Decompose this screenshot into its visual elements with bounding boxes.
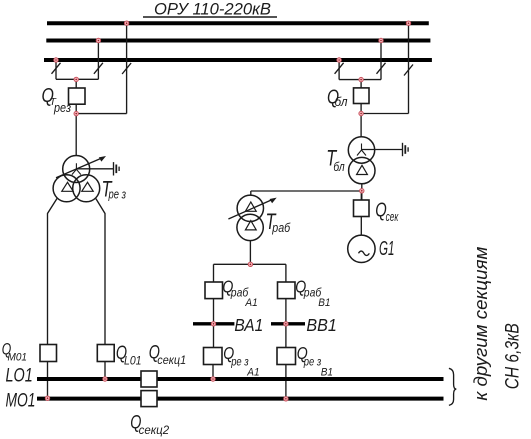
wire: into QTrez box top: [75, 79, 77, 88]
transformer Trab HV winding (top circle): [237, 195, 263, 221]
label Qbl: [327, 87, 348, 109]
wire: QrezB1 to bus M01: [285, 365, 287, 400]
breaker Qbl box: [354, 88, 370, 104]
svg-text:ре з: ре з: [108, 187, 126, 202]
label Trez: [102, 177, 127, 202]
section breaker Qsekc2 box: [141, 391, 157, 407]
junction nodes (red markers): [45, 21, 410, 401]
transformer Trab LV winding (bottom circle): [237, 214, 263, 240]
tilde inside G1: [359, 251, 370, 255]
bus BB1: [271, 322, 305, 325]
node on W2 right: [379, 38, 383, 42]
delta symbol in Tbl LV winding: [357, 165, 368, 174]
svg-text:LO1: LO1: [6, 366, 33, 387]
wire: W3 drop to Qbl branch: [338, 60, 340, 80]
breaker Qsek box: [354, 200, 370, 217]
wire: Tbl down to section node: [361, 184, 363, 200]
bus L01 left segment: [37, 377, 141, 381]
wire: QrezA1 to bus L01: [212, 365, 214, 380]
delta symbol in Trab HV winding: [245, 202, 256, 211]
node on BB1: [284, 322, 288, 326]
wire: below QM01 to M01 bus: [47, 362, 49, 399]
svg-text:В1: В1: [318, 297, 330, 309]
wire: below QTrez box: [75, 104, 77, 156]
wire: below Qbl box: [360, 104, 362, 138]
svg-text:ре з: ре з: [230, 355, 249, 369]
label Qsekc1: [149, 343, 186, 367]
node QrezB1-M01: [284, 397, 288, 401]
section breaker Qsekc1 box: [141, 371, 157, 387]
svg-text:ВВ1: ВВ1: [306, 315, 336, 335]
node on W3 left: [54, 58, 58, 62]
wire: W2 drop to Qbl branch: [380, 41, 382, 80]
svg-text:к другим секциям: к другим секциям: [470, 246, 491, 400]
busbar W3 (bottom 110-220kV bus): [44, 58, 432, 62]
bus M01 right segment: [157, 397, 444, 401]
wire: W3 drop to QTrez branch: [55, 60, 57, 79]
node on W1 right bypass: [406, 21, 410, 25]
label Qsek: [375, 199, 399, 224]
node QL01-L01: [103, 377, 107, 381]
node QrezA1-L01: [211, 377, 215, 381]
breaker QM01 box: [40, 345, 57, 362]
transformer Tbl LV winding (bottom circle): [349, 157, 375, 183]
label QM01: [2, 341, 27, 364]
wire: Trab riser: [250, 191, 252, 196]
star point in Trez HV winding: [72, 163, 81, 174]
svg-text:В1: В1: [321, 367, 333, 379]
wire: bypass riser to W1 (right): [408, 23, 410, 113]
disconnector slash on W3 drop (right): [335, 63, 344, 74]
label QrabB1: [295, 276, 330, 309]
underline of title: [143, 16, 277, 18]
svg-text:раб: раб: [271, 221, 291, 235]
wire: QrabA1 to BA1: [213, 299, 215, 348]
busbar W1 (top 110-220kV bus): [47, 21, 429, 25]
disconnector slash on W2 drop: [94, 63, 103, 74]
svg-text:М01: М01: [8, 351, 28, 363]
wire: Trab down to split node: [249, 240, 251, 264]
wire: into Qbl box top: [360, 80, 362, 88]
star symbol in Tbl HV winding: [357, 144, 366, 156]
svg-text:секц1: секц1: [157, 355, 186, 367]
svg-text:сек: сек: [386, 210, 399, 224]
wire: Trez LV leg down-right: [96, 199, 105, 345]
label QTrez: [42, 85, 72, 115]
node below Trab: [248, 262, 252, 266]
node on W1 left bypass: [124, 21, 128, 25]
svg-text:ре з: ре з: [303, 355, 322, 369]
bus M01 left segment: [37, 397, 141, 401]
node above QTrez: [74, 77, 78, 81]
wire: bypass riser to W1: [126, 23, 128, 113]
label Tbl: [326, 146, 344, 174]
label QrabA1: [222, 276, 257, 309]
label QrezB1: [297, 343, 333, 378]
label QL01: [116, 343, 142, 367]
wire: bypass horizontal below QTrez: [76, 113, 126, 115]
neutral wire to ground from Tbl: [362, 149, 403, 151]
ground symbol at Trez neutral: [113, 162, 115, 175]
wire: horizontal joining branch above QTrez: [56, 78, 98, 80]
transformer Tbl HV winding (top circle): [348, 137, 374, 163]
generator G1 circle: [348, 235, 375, 262]
svg-text:бл: бл: [335, 95, 348, 109]
bus BA1: [193, 322, 234, 325]
disconnector slash on bypass riser: [122, 63, 131, 74]
wire: QrabB1 to BB1: [285, 299, 287, 348]
curly brace for other sections: [449, 368, 456, 405]
svg-text:ОРУ 110-220кВ: ОРУ 110-220кВ: [154, 1, 271, 19]
label Qsekc2: [130, 413, 170, 437]
ground symbol at Tbl neutral: [402, 143, 404, 156]
breaker QTrez box: [69, 88, 86, 104]
svg-text:ВА1: ВА1: [234, 315, 263, 335]
delta symbol in Trab LV winding: [245, 221, 256, 230]
delta symbol in MV winding: [62, 182, 73, 191]
node on BA1: [211, 322, 215, 326]
label QrezA1: [223, 343, 259, 378]
wire: right drop to QrabB1: [285, 264, 287, 282]
svg-text:А1: А1: [244, 297, 257, 309]
wire: tie line from Trab to Tbl node: [251, 190, 362, 192]
delta symbol in LV winding: [82, 182, 93, 191]
wire: below QL01 to L01 bus: [104, 362, 106, 380]
transformer Trez MV winding (bottom-left circle): [53, 175, 80, 202]
node QM01-M01: [45, 396, 49, 400]
disconnector slash on W3 drop: [52, 63, 61, 74]
tap-changer arrow through Trez: [56, 158, 103, 178]
svg-text:А1: А1: [246, 367, 259, 379]
tap-changer arrow through Trab: [228, 199, 273, 219]
node below QTrez: [74, 111, 78, 115]
busbar W2 (middle 110-220kV bus): [46, 39, 430, 43]
wire: Tbl node to Qsek: [360, 191, 362, 200]
neutral wire to ground from Trez: [76, 168, 113, 170]
node on W2 left: [96, 38, 100, 42]
svg-text:СН 6,3кВ: СН 6,3кВ: [502, 323, 523, 389]
wire: W2 drop to QTrez branch: [97, 41, 99, 80]
breaker QL01 box: [97, 345, 114, 362]
breaker QrezB1 box: [277, 348, 296, 365]
svg-text:рез: рез: [53, 100, 71, 115]
breaker QrabA1 box: [205, 282, 223, 299]
node below Qbl: [359, 111, 363, 115]
breaker QrezA1 box: [204, 348, 223, 365]
node at Tbl / tie line: [360, 189, 364, 193]
wire: Trez MV leg down-left: [48, 199, 58, 345]
label Trab: [266, 209, 292, 235]
bus L01 right segment: [157, 377, 444, 381]
breaker QrabB1 box: [278, 282, 296, 299]
disconnector slash on W2 drop (right): [377, 63, 386, 74]
disconnector slash on bypass riser (right): [404, 65, 413, 76]
wire: horizontal joining branch above Qbl: [339, 79, 381, 81]
wire: split horizontal: [214, 263, 286, 265]
transformer Trez HV winding (top circle): [63, 156, 90, 183]
svg-text:секц2: секц2: [139, 425, 170, 437]
svg-text:бл: бл: [333, 160, 344, 174]
transformer Trez LV winding (bottom-right circle): [73, 175, 100, 202]
wire: left drop to QrabA1: [213, 264, 215, 282]
wire: Qsek to G1: [360, 217, 362, 236]
svg-text:MO1: MO1: [6, 390, 36, 411]
node on W3 right: [337, 58, 341, 62]
svg-text:L01: L01: [124, 356, 142, 368]
node above Qbl: [359, 77, 363, 81]
svg-text:G1: G1: [379, 238, 395, 260]
wire: bypass horizontal below Qbl: [361, 113, 408, 115]
